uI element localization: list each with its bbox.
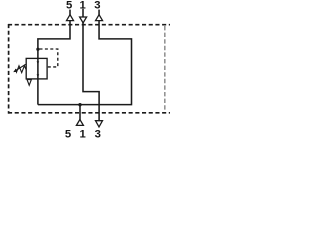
svg-text:1: 1	[80, 0, 86, 11]
svg-text:5: 5	[66, 0, 72, 11]
svg-text:3: 3	[94, 0, 100, 11]
svg-text:5: 5	[65, 129, 71, 140]
svg-text:3: 3	[95, 129, 101, 140]
svg-text:1: 1	[79, 129, 85, 140]
